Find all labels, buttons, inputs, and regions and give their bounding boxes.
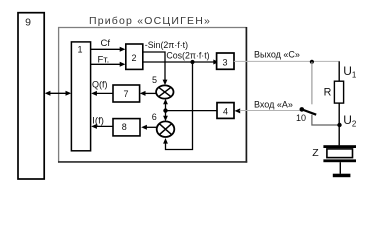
svg-text:Cos(2π·f·t): Cos(2π·f·t) [166, 50, 209, 60]
wire right branch down [338, 61, 340, 81]
multiplier 6 [157, 121, 175, 137]
wire Cos drop to mult 6 bottom [166, 62, 193, 150]
wire Cos 2->3 [143, 61, 215, 63]
svg-text:3: 3 [222, 57, 227, 67]
device box (Прибор ОСЦИГЕН) [58, 27, 247, 29]
node on Cos line [190, 60, 194, 64]
wire I 8->1 [96, 125, 113, 127]
wire: double arrow 9-1 [48, 92, 69, 94]
impedance Z (resonator) [323, 145, 356, 148]
svg-text:5: 5 [152, 75, 157, 85]
svg-text:Q(f): Q(f) [92, 80, 108, 90]
wire input A (gray) [240, 110, 302, 112]
block 9 [18, 13, 44, 179]
svg-text:Выход «С»: Выход «С» [254, 50, 300, 60]
svg-text:6: 6 [152, 112, 157, 122]
svg-text:I(f): I(f) [92, 116, 104, 127]
wire block4 -> node [166, 110, 218, 112]
wire output C (gray) [234, 60, 340, 62]
ground [333, 174, 351, 178]
junction node [163, 108, 167, 112]
svg-text:R: R [324, 86, 332, 98]
node on output line [310, 60, 314, 64]
svg-text:Cf: Cf [101, 38, 111, 49]
svg-text:9: 9 [25, 17, 31, 29]
svg-text:1: 1 [77, 44, 82, 54]
wire down from output node to switch contact [311, 62, 313, 105]
arrow input A into 4 [235, 108, 241, 113]
wire mult5 -> 7 [144, 92, 156, 94]
svg-text:4: 4 [223, 106, 228, 116]
resistor R [334, 81, 343, 103]
arrow node -> mult6 top [165, 111, 167, 118]
svg-text:7: 7 [123, 89, 128, 99]
wire mult6 -> 8 [146, 126, 157, 128]
wire Fт 1->2 [91, 63, 121, 65]
wire R to Z [338, 103, 340, 145]
block 8 [113, 119, 140, 136]
wire -Sin: right then down to mult 5 [143, 52, 166, 81]
block 7 [113, 85, 140, 102]
wire Cf 1->2 [91, 48, 121, 50]
svg-text:2: 2 [131, 53, 136, 63]
wire Q 7->1 [96, 92, 113, 94]
svg-text:8: 8 [122, 122, 127, 132]
svg-text:Вход «А»: Вход «А» [254, 99, 293, 109]
arrow node -> mult5 bottom [165, 103, 167, 111]
multiplier 5 [156, 85, 173, 98]
block 1 [71, 42, 90, 151]
wire switch to U2 [312, 115, 340, 125]
block 4 [217, 103, 234, 119]
svg-text:Z: Z [312, 147, 319, 159]
svg-text:10: 10 [296, 113, 306, 123]
node U2 [337, 123, 341, 127]
wire Z to ground [339, 162, 341, 174]
block 2 [126, 44, 143, 69]
switch 10 blade [302, 109, 316, 114]
svg-text:-Sin(2π·f·t): -Sin(2π·f·t) [145, 40, 188, 50]
block 3 [217, 53, 234, 69]
svg-text:Прибор «ОСЦИГЕН»: Прибор «ОСЦИГЕН» [89, 15, 211, 27]
